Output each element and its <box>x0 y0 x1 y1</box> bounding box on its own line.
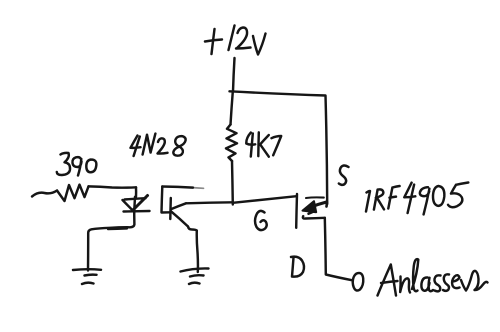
pin label G <box>255 211 267 230</box>
ground (LED side) <box>73 269 101 284</box>
wire top branch to MOSFET source <box>230 91 328 204</box>
wire collector to gate node <box>186 202 233 203</box>
net label +12V <box>205 26 266 55</box>
wire R1 right lead to LED <box>89 186 137 187</box>
wire resistor R2 bottom to gate node <box>231 161 234 205</box>
wire 390 left lead <box>32 191 57 197</box>
ground (emitter side) <box>181 268 209 284</box>
optocoupler U1 phototransistor <box>162 187 204 227</box>
pin label S <box>339 165 349 184</box>
mosfet Q1 drain stub <box>303 216 325 218</box>
resistor R2 4K7 <box>226 125 237 162</box>
terminal circle Anlasser <box>353 273 364 291</box>
label 4K7 <box>246 132 281 156</box>
wire drain down and to terminal <box>325 218 353 280</box>
net label Anlasser <box>378 259 488 295</box>
wire junction down to resistor R2 top <box>231 92 233 125</box>
wire gate node to MOSFET gate <box>233 196 297 203</box>
mosfet Q1 gate bar <box>295 194 298 228</box>
wire LED cathode to ground <box>88 213 134 271</box>
optocoupler U1 LED <box>123 196 150 214</box>
wire emitter to ground <box>188 227 198 273</box>
label IRF4905 <box>366 183 468 215</box>
label 4N28 <box>131 134 186 156</box>
pin label D <box>291 257 304 277</box>
mosfet Q1 source arrow <box>303 197 327 213</box>
wire +12V down to top junction <box>233 58 235 92</box>
wire R1 to LED anode corner <box>135 187 138 197</box>
resistor R1 390 <box>57 185 89 201</box>
label 390 <box>57 153 97 176</box>
